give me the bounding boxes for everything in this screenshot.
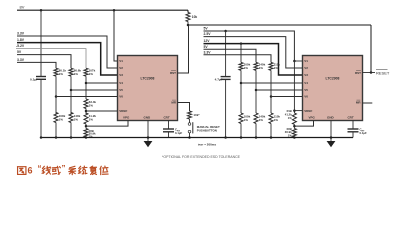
svg-text:CRT: CRT [164,115,170,119]
wire U2 VPG down-left to divider [294,121,313,127]
wire rail -5.2V to divider col86 [16,49,86,69]
wire col256 mid [255,70,257,113]
wire U2 MR stub [363,102,373,104]
wire bottom rail [41,137,353,139]
svg-text:10k*: 10k* [193,113,200,117]
wire V6 tap [56,96,118,98]
svg-text:1%: 1% [259,66,264,70]
wire U1 CRT to cap [168,121,170,130]
svg-text:tRST = 200ms: tRST = 200ms [198,143,216,147]
junction U1 GND on rail [147,136,150,139]
wire wired-OR down to RESET [370,25,372,73]
junction V1 tap on 5V drop [293,60,296,63]
resistor 63.4k [84,99,88,109]
junction VREF tap U2 [293,109,296,112]
capacitor 0.1uF bypass [36,76,46,78]
wire V4 tap U2 [241,82,303,84]
resistor 86.6k [69,68,73,76]
wire col56 to rail [55,123,57,138]
wire U1 GND to ground [147,121,149,142]
svg-text:3.3V: 3.3V [204,50,212,54]
junction col271 rail [270,136,273,139]
junction bypass cap left on rail [40,136,43,139]
svg-text:0.1µF: 0.1µF [30,77,38,81]
svg-text:V2: V2 [119,66,123,70]
junction U2 GND on rail [330,136,333,139]
svg-text:V2: V2 [304,66,308,70]
svg-text:3.3V: 3.3V [17,32,25,36]
wire VREF tap [86,110,118,112]
junction col256 V5 tap [255,89,258,92]
svg-text:3.3V: 3.3V [17,58,25,62]
svg-text:5V: 5V [204,45,209,49]
capacitor CRT U1 0.1uF [163,128,174,130]
resistor 10k pullup [186,13,190,22]
junction col294 VPG node [293,125,296,128]
wire 8V to V1 pin [114,10,118,61]
resistor 100k (left) [54,113,58,123]
wire right cap to rail [225,79,227,137]
svg-text:V1: V1 [304,59,308,63]
svg-text:1%: 1% [74,117,79,121]
wire col71 mid [70,76,72,114]
junction col86 VPG node [85,125,88,128]
svg-text:1%: 1% [244,66,249,70]
svg-text:1%: 1% [288,133,293,137]
svg-text:5V: 5V [204,27,209,31]
junction rail 5V bypass tap [224,30,227,33]
svg-text:1%: 1% [274,118,279,122]
svg-text:2.5V: 2.5V [204,32,212,36]
wire rail 2.5V to V2 U2 [204,37,303,68]
svg-text:5V: 5V [17,50,22,54]
svg-text:1%: 1% [259,118,264,122]
svg-text:RST: RST [355,71,361,75]
wire button to rail [189,133,191,138]
ground U1 [144,141,153,147]
svg-text:CRT: CRT [348,115,354,119]
resistor 100k (right bot) [239,113,243,124]
wire U2 CRT to cap [352,121,354,130]
wire col294 VPG node seg [293,124,295,128]
wire V6 tap U2 [271,96,303,98]
wire 5V drop to VREF chain [293,61,295,113]
junction col56 V6 tap [55,95,58,98]
svg-text:VPG: VPG [123,115,130,119]
svg-text:V6: V6 [304,95,308,99]
svg-text:6: 6 [28,166,33,176]
svg-text:RST: RST [170,71,176,75]
svg-text:VREF: VREF [304,109,312,113]
wire rail 3.3V to divider col56 [17,62,56,68]
svg-text:1%: 1% [59,72,64,76]
junction col256 rail [255,136,258,139]
wire col71 to rail [70,123,72,138]
capacitor CRT U2 0.1uF [348,128,359,130]
junction col294 rail [293,136,296,139]
wire col241 mid [240,70,242,113]
junction col241 rail [240,136,243,139]
svg-text:PUSHBUTTON: PUSHBUTTON [197,129,217,133]
svg-text:4.7µF: 4.7µF [215,78,223,82]
junction right bypass on rail [224,136,227,139]
junction col56 rail [55,136,58,139]
svg-text:V5: V5 [119,88,123,92]
resistor 41.2k (right) [292,113,296,124]
wire right bypass drop [225,31,227,77]
IC U1 LTC2908 body [118,56,178,121]
wire RESET stub [371,72,375,74]
wire U1 RST to wired-OR [178,26,189,74]
IC U2 LTC2908 body [303,56,363,121]
svg-text:0.1µF: 0.1µF [360,131,367,135]
wire col56 mid [55,76,57,114]
svg-text:10k: 10k [192,15,198,19]
junction col71 rail [70,136,73,139]
resistor 115k (right top) [269,62,273,70]
wire V5 tap U2 [256,89,303,91]
svg-text:8V: 8V [20,4,25,9]
svg-text:1%: 1% [59,117,64,121]
junction RESET node [370,71,373,74]
wire 8V drop to bypass cap [40,10,42,76]
svg-text:V1: V1 [119,59,123,63]
svg-text:1%: 1% [288,116,293,120]
svg-text:1%: 1% [89,117,94,121]
wire V4 tap [86,82,118,84]
junction col241 V4 tap [240,82,243,85]
junction col86 rail [85,136,88,139]
wire rail 3.3V to divider col271 [204,55,272,63]
svg-text:1%: 1% [89,72,94,76]
svg-text:V3: V3 [119,73,123,77]
junction on 8V rail at x=41 [40,9,43,12]
resistor 30.9k [84,129,88,138]
wire col86 to VPG node [85,124,87,129]
resistor 30.9k (right) [292,129,296,138]
wire wired-OR reset line [188,24,371,26]
wire 8V rail [17,9,188,11]
svg-text:V4: V4 [119,81,123,85]
wire col271 to rail [270,124,272,138]
wire U1 VPG down-left to divider [86,121,128,127]
junction 12V divider tap [240,42,243,45]
svg-text:LTC2908: LTC2908 [326,76,340,80]
resistor 100k (right top) [239,62,243,70]
svg-text:0.1µF: 0.1µF [175,131,182,135]
wire U1 MR pin [178,103,190,112]
wire col271 mid [270,70,272,113]
wire rail 12V to V3 U2 [204,44,303,75]
svg-text:”: ” [62,164,66,173]
resistor 10k* ESD [188,111,192,119]
wire U2 GND to ground [330,121,332,142]
junction on 8V rail at x=114 [113,9,116,12]
wire VREF tap U2 [294,110,302,112]
svg-text:VPG: VPG [309,115,316,119]
resistor 140k (left) [69,113,73,123]
resistor 140k (right bot) [254,113,258,124]
junction col271 V6 tap [270,95,273,98]
wire 10k to wired-OR node [187,22,189,26]
junction col86 V4 tap [85,82,88,85]
svg-text:1%: 1% [74,72,79,76]
wire U1 cap to rail [168,132,170,138]
wire col86 vref seg [85,109,87,115]
svg-text:1%: 1% [274,66,279,70]
wire rail 5V to divider col256 [204,49,257,62]
resistor 80.1k [54,68,58,76]
wire rail 5V to V1 U2 [204,31,295,61]
junction col71 V5 tap [70,89,73,92]
wire cap to bottom rail [40,79,42,137]
svg-text:GND: GND [144,115,152,119]
junction wired-OR node [187,24,190,27]
wire 10k* to button [189,119,191,123]
svg-text:V4: V4 [304,81,308,85]
wire U2 RST to RESET node [363,72,372,74]
svg-text:12V: 12V [204,39,211,43]
svg-text:V3: V3 [304,73,308,77]
wire col256 to rail [255,124,257,138]
ground U2 [327,141,336,147]
svg-text:1%: 1% [89,103,94,107]
svg-text:VREF: VREF [119,109,127,113]
wire rail 1.8V to V3 [17,43,118,75]
wire U2 cap to rail [352,132,354,138]
svg-text:V5: V5 [304,88,308,92]
wire V5 tap [71,89,118,91]
resistor 115k (right bot) [269,113,273,124]
wire col86 mid [85,76,87,99]
svg-text:RESET: RESET [376,71,390,76]
junction button on rail [188,136,191,139]
wire 12V tap down [240,44,242,63]
junction col86 VREF tap [85,110,88,113]
svg-text:GND: GND [327,115,335,119]
svg-text:1%: 1% [244,118,249,122]
wire col294 to rail [293,136,295,139]
pushbutton S1 contacts [188,123,191,126]
svg-text:“: “ [38,164,42,173]
capacitor 4.7uF bypass [221,76,231,78]
resistor 41.2k [84,113,88,124]
svg-text:*OPTIONAL FOR EXTENDED ESD TOL: *OPTIONAL FOR EXTENDED ESD TOLERANCE [162,155,241,159]
svg-text:V6: V6 [119,95,123,99]
resistor 107k [84,68,88,76]
wire col241 to rail [240,124,242,138]
wire rail 5V to divider col71 [17,55,71,69]
resistor 140k (right top) [254,62,258,70]
pushbutton S1 actuator [192,122,194,133]
svg-text:1.8V: 1.8V [17,38,25,42]
svg-text:LTC2908: LTC2908 [141,76,155,80]
wire 8V rail corner to 10k [187,10,189,12]
wire col86 to rail [85,136,87,139]
wire rail 3.3V to V2 [17,36,118,68]
caption fig 6 wired-or system reset [18,166,26,168]
svg-text:-5.2V: -5.2V [16,44,25,48]
